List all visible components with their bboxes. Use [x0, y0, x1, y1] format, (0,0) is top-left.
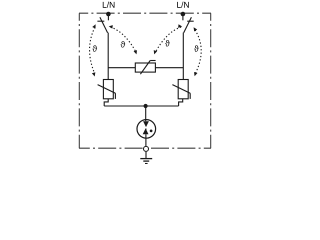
- wire: left varistor bottom lead (jogged): [104, 99, 108, 106]
- wire: right lead of center varistor: [155, 67, 183, 69]
- thermal coupling arrow (inner right, switch - center varistor): [156, 27, 181, 52]
- enclosure boundary (dash-dot outline of protective device): [79, 13, 211, 148]
- wire: right disconnector down to right varistor: [182, 33, 184, 80]
- node: right L/N terminal junction dot: [181, 12, 186, 17]
- wire: bottom bus joining varistors: [104, 105, 178, 107]
- terminal label L/N (right): [177, 2, 189, 8]
- gas discharge tube (spark gap to earth): [137, 120, 156, 139]
- terminal label L/N (left): [103, 2, 115, 8]
- thermal symbol (inner right): [165, 40, 170, 46]
- ground (earth) symbol: [140, 159, 152, 164]
- thermal coupling arrow (far right, switch - right varistor): [195, 30, 201, 73]
- varistor (right branch): [172, 80, 190, 99]
- varistor (center, between L and N): [135, 61, 155, 75]
- node: left L/N terminal junction dot: [106, 12, 111, 17]
- varistor (left branch): [98, 80, 116, 99]
- node: common junction dot on bottom bus: [144, 104, 148, 108]
- thermal symbol (inner left): [121, 41, 126, 47]
- wire: junction down to gas discharge tube: [145, 106, 147, 121]
- thermal coupling arrow (inner left, switch - center varistor): [110, 27, 135, 52]
- thermal coupling arrow (far left, switch - left varistor): [90, 27, 95, 72]
- thermal symbol (far right): [194, 45, 199, 51]
- wire: left disconnector down to left varistor: [107, 33, 109, 80]
- thermal symbol (far left): [92, 45, 97, 51]
- wire: gas discharge tube to earth terminal: [145, 135, 147, 147]
- wire: right varistor bottom lead (jogged): [179, 99, 183, 106]
- node: earth terminal (open circle on enclosure boundary): [144, 146, 149, 151]
- thermal disconnector (right switch): [183, 14, 194, 33]
- wire: left lead of center varistor: [108, 67, 135, 69]
- thermal disconnector (left switch): [97, 14, 108, 33]
- wire: earth terminal to ground symbol: [145, 152, 147, 158]
